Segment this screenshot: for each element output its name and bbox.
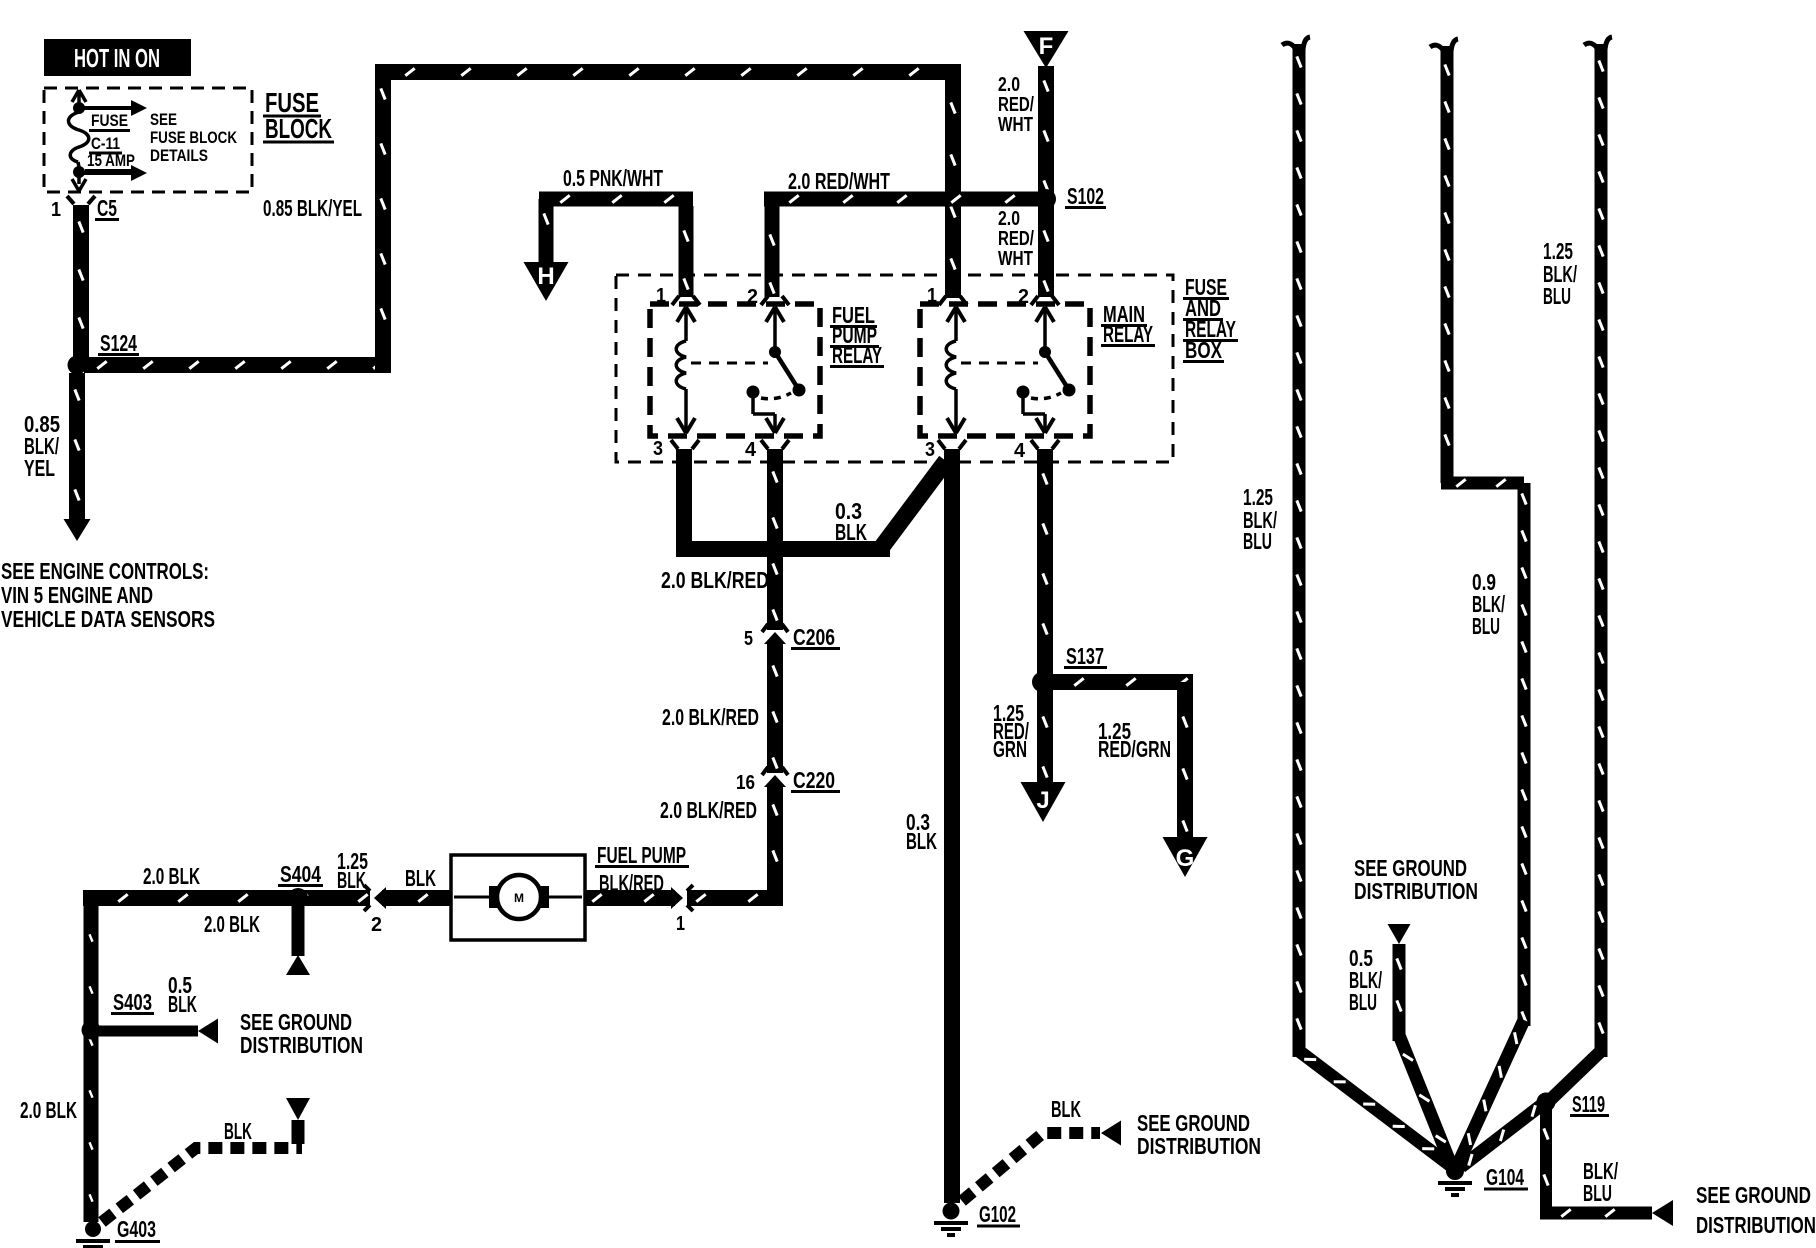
- wire 2.0 BLK S404 run down to G403: [84, 898, 99, 1222]
- svg-text:2.0 BLK/RED: 2.0 BLK/RED: [662, 704, 759, 730]
- svg-text:SEE: SEE: [150, 110, 177, 129]
- wire 2.0 BLK/RED fuel pump relay pin 4 to C206: [767, 449, 783, 630]
- svg-text:0.85 BLK/YEL: 0.85 BLK/YEL: [263, 195, 362, 221]
- svg-text:1: 1: [676, 913, 685, 935]
- svg-text:S119: S119: [1572, 1091, 1605, 1117]
- wire 2.0 BLK left run to S404 and pump: [83, 848, 451, 937]
- note SEE ENGINE CONTROLS: [1, 558, 215, 632]
- label 0.3 BLK upper: [835, 498, 867, 545]
- HOT IN ON banner: [44, 39, 191, 76]
- main relay label: [1101, 301, 1155, 347]
- wire 2.0 BLK/RED C220 to fuel pump: [660, 784, 783, 906]
- svg-text:DISTRIBUTION: DISTRIBUTION: [1137, 1133, 1261, 1159]
- svg-text:2.0 RED/WHT: 2.0 RED/WHT: [788, 168, 890, 194]
- connector 2 at fuel pump: [364, 885, 386, 936]
- svg-text:RED/: RED/: [998, 94, 1034, 116]
- svg-text:GRN: GRN: [993, 736, 1027, 762]
- svg-text:2.0 BLK: 2.0 BLK: [143, 863, 200, 889]
- svg-text:2.0: 2.0: [998, 208, 1020, 230]
- svg-text:WHT: WHT: [998, 248, 1033, 270]
- svg-text:DISTRIBUTION: DISTRIBUTION: [240, 1032, 363, 1058]
- svg-text:S137: S137: [1066, 643, 1104, 669]
- svg-text:2.0 BLK: 2.0 BLK: [204, 911, 260, 937]
- ground G102: [934, 1201, 1020, 1235]
- wire 1.25 RED/GRN S137 to G: [1049, 674, 1208, 877]
- svg-text:YEL: YEL: [24, 455, 55, 481]
- svg-text:DISTRIBUTION: DISTRIBUTION: [1354, 878, 1478, 904]
- fuse and relay box dashed outline: [616, 275, 1173, 462]
- svg-text:HOT IN ON: HOT IN ON: [74, 43, 160, 73]
- connector C220: [736, 767, 840, 794]
- page connector H: [524, 262, 569, 301]
- wire BLK/BLU S119 to ground distribution: [1540, 1108, 1673, 1226]
- svg-text:VIN 5 ENGINE AND: VIN 5 ENGINE AND: [1, 582, 153, 608]
- svg-text:VEHICLE DATA SENSORS: VEHICLE DATA SENSORS: [1, 606, 215, 632]
- wire 2.0 BLK/RED C206 to C220: [662, 641, 783, 773]
- svg-text:S403: S403: [113, 989, 152, 1015]
- svg-text:S102: S102: [1067, 183, 1104, 209]
- svg-text:2: 2: [1018, 286, 1029, 308]
- svg-text:RELAY: RELAY: [1103, 321, 1153, 347]
- wire 0.85 BLK/YEL fuse to S124: [24, 195, 362, 481]
- svg-text:M: M: [514, 891, 524, 905]
- S404 stub to ground distribution: [286, 906, 310, 975]
- svg-text:SEE ENGINE CONTROLS:: SEE ENGINE CONTROLS:: [1, 558, 209, 584]
- svg-text:FUEL PUMP: FUEL PUMP: [597, 842, 686, 868]
- svg-text:BLU: BLU: [1243, 528, 1272, 554]
- svg-text:C5: C5: [97, 195, 117, 221]
- svg-text:15 AMP: 15 AMP: [87, 151, 135, 170]
- svg-text:BLK: BLK: [405, 865, 436, 891]
- svg-text:G104: G104: [1486, 1164, 1524, 1190]
- FUSE BLOCK label: [263, 87, 334, 144]
- wire 1.25 RED/GRN S137 to J: [1021, 682, 1066, 822]
- splice S137: [1032, 643, 1107, 692]
- fuel pump relay pins: [653, 285, 789, 461]
- connector C5: [51, 195, 119, 221]
- svg-text:G102: G102: [979, 1201, 1016, 1227]
- svg-text:2.0 BLK: 2.0 BLK: [20, 1097, 77, 1123]
- svg-text:DISTRIBUTION: DISTRIBUTION: [1696, 1212, 1816, 1238]
- wire 0.5 BLK/BLU arrow to G104: [1349, 924, 1458, 1169]
- connector 1 at fuel pump: [671, 885, 693, 935]
- splice S124: [68, 330, 140, 375]
- svg-text:S404: S404: [280, 861, 321, 887]
- svg-text:2.0 BLK/RED: 2.0 BLK/RED: [661, 567, 769, 593]
- svg-text:RED/: RED/: [998, 228, 1034, 250]
- fuse labels: [85, 110, 238, 172]
- svg-text:BLU: BLU: [1472, 613, 1500, 639]
- svg-text:BOX: BOX: [1185, 337, 1222, 363]
- fuel pump label: [595, 842, 689, 896]
- svg-text:3: 3: [925, 439, 935, 461]
- svg-text:BLU: BLU: [1543, 283, 1571, 309]
- note see ground distribution S403: [240, 1009, 363, 1058]
- svg-text:BLK: BLK: [835, 519, 867, 545]
- wire 0.9 BLK/BLU riser to G104: [1430, 39, 1531, 1167]
- fuse and relay box label: [1183, 274, 1238, 363]
- svg-text:BLK: BLK: [906, 828, 937, 854]
- svg-text:BLOCK: BLOCK: [265, 113, 332, 144]
- svg-text:BLK: BLK: [1051, 1096, 1081, 1122]
- fuse C-11 15 AMP: [69, 90, 148, 191]
- svg-text:S124: S124: [100, 330, 137, 356]
- main relay internals: [947, 307, 956, 322]
- svg-text:SEE GROUND: SEE GROUND: [1696, 1182, 1811, 1208]
- dashed wire BLK G102 to ground distribution: [962, 1096, 1121, 1201]
- wire fuel pump relay pin 3 to main relay pin 3: [676, 449, 960, 557]
- svg-text:RELAY: RELAY: [832, 342, 882, 368]
- svg-text:C206: C206: [793, 624, 835, 650]
- note see ground distribution 0.5 BLK/BLU: [1354, 855, 1478, 904]
- svg-text:5: 5: [744, 628, 753, 650]
- wire 0.3 BLK main relay pin 3 to G102: [944, 461, 960, 1203]
- splice S119: [1457, 1091, 1609, 1172]
- main relay pins: [925, 285, 1059, 462]
- main relay dashed box: [920, 304, 1090, 436]
- fuel pump relay dashed box: [650, 304, 820, 436]
- note see ground distribution G102: [1137, 1110, 1261, 1159]
- wire 2.0 RED/WHT from F through S102: [998, 66, 1054, 297]
- svg-text:BLK: BLK: [337, 867, 366, 893]
- svg-text:3: 3: [653, 438, 663, 460]
- splice S102: [1036, 183, 1106, 209]
- wire S124 down to engine controls: [64, 373, 91, 541]
- svg-text:F: F: [1039, 33, 1054, 60]
- svg-text:BLK/RED: BLK/RED: [599, 870, 664, 896]
- dashed wire BLK G403 to ground distribution: [102, 1118, 302, 1222]
- svg-text:FUSE: FUSE: [91, 111, 128, 130]
- arrow down to dashed BLK wire: [286, 1098, 310, 1144]
- fuse block dashed box: [44, 88, 252, 192]
- svg-text:C220: C220: [793, 767, 835, 793]
- connector C206: [744, 624, 840, 650]
- svg-text:J: J: [1036, 787, 1049, 814]
- splice S404: [278, 861, 323, 908]
- svg-text:2.0 BLK/RED: 2.0 BLK/RED: [660, 797, 757, 823]
- svg-text:0.5 PNK/WHT: 0.5 PNK/WHT: [563, 165, 663, 191]
- svg-text:BLU: BLU: [1349, 989, 1377, 1015]
- wire 1.25 RED/GRN main relay pin 4 to S137: [993, 449, 1053, 762]
- label 0.3 BLK lower: [906, 809, 937, 854]
- fuel pump relay internals: [677, 307, 686, 322]
- svg-text:1: 1: [927, 285, 937, 307]
- wire 0.5 PNK/WHT: [539, 165, 694, 262]
- svg-text:G: G: [1176, 845, 1195, 872]
- wire 0.5 BLK S403 to ground distribution: [97, 1019, 218, 1044]
- fuel pump relay label: [830, 302, 884, 368]
- wire BLK/RED fuel pump to riser: [585, 890, 783, 906]
- note see ground distribution S119: [1696, 1182, 1816, 1238]
- svg-text:1: 1: [51, 199, 61, 221]
- svg-text:DETAILS: DETAILS: [150, 146, 208, 165]
- svg-text:FUSE BLOCK: FUSE BLOCK: [150, 128, 238, 147]
- fuel pump motor: [451, 855, 585, 940]
- svg-text:WHT: WHT: [998, 114, 1033, 136]
- svg-text:2: 2: [747, 286, 758, 308]
- svg-text:BLK: BLK: [168, 991, 197, 1017]
- wire 0.85 BLK/YEL S124 to fuse and relay box via top run: [84, 64, 961, 373]
- ground G104: [1438, 1162, 1528, 1195]
- svg-text:1: 1: [656, 285, 666, 307]
- svg-text:2: 2: [371, 914, 382, 936]
- svg-text:BLU: BLU: [1583, 1180, 1612, 1206]
- svg-text:4: 4: [745, 439, 757, 461]
- wire 2.0 RED/WHT to relay pins: [764, 168, 1046, 297]
- svg-text:BLK: BLK: [224, 1118, 252, 1144]
- wire to fuel pump relay pin 1: [679, 206, 694, 297]
- splice S403: [82, 972, 198, 1040]
- wire 1.25 BLK/BLU left riser to G104: [1243, 37, 1455, 1171]
- svg-text:16: 16: [736, 772, 755, 794]
- wire 1.25 BLK/BLU right riser to S119: [1543, 37, 1612, 1107]
- page connector F: [1024, 31, 1069, 68]
- ground G403: [76, 1216, 160, 1248]
- svg-text:4: 4: [1014, 440, 1026, 462]
- svg-text:H: H: [537, 263, 554, 290]
- svg-text:RED/GRN: RED/GRN: [1098, 736, 1171, 762]
- svg-text:2.0: 2.0: [998, 74, 1020, 96]
- svg-text:G403: G403: [117, 1216, 156, 1242]
